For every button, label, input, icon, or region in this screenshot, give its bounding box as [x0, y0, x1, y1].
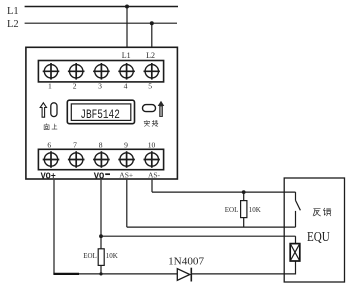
wire L2 drop to terminal 5 — [151, 23, 153, 48]
wire resistor to bottom — [100, 265, 102, 274]
junction dot VO- branch — [99, 234, 103, 238]
svg-text:6: 6 — [47, 141, 51, 150]
terminal 4 — [118, 63, 135, 80]
svg-text:5: 5 — [148, 82, 152, 91]
svg-text:L1: L1 — [7, 6, 19, 17]
diode D1 1N4007 triangle — [177, 269, 190, 281]
label shang (上) of 向上 — [52, 124, 57, 129]
label fan (反) of 反馈 — [313, 209, 320, 216]
wire VO- drop — [100, 180, 102, 249]
terminal 8 — [93, 151, 110, 168]
terminal 5 — [144, 63, 160, 80]
wire AS- run — [152, 191, 296, 193]
terminal 7 — [68, 151, 85, 168]
wire bottom to diode — [79, 273, 177, 275]
svg-text:2: 2 — [73, 82, 77, 91]
orientation icon: outline up-arrow — [40, 103, 46, 117]
switch feedback contact upper stub — [295, 192, 297, 200]
terminal 9 — [118, 151, 135, 168]
resistor EOL 10K (lower) — [98, 249, 104, 266]
orientation icon: zero capsule — [51, 103, 57, 117]
wire L1 bus — [25, 6, 178, 8]
svg-text:10K: 10K — [249, 206, 261, 214]
wire resistor EOL upper top stub — [243, 192, 245, 201]
svg-text:1N4007: 1N4007 — [168, 256, 204, 267]
svg-text:3: 3 — [98, 82, 102, 91]
display bezel inner — [71, 104, 131, 121]
svg-text:10: 10 — [148, 141, 156, 150]
switch feedback lower stub — [295, 211, 297, 227]
wire diode to load — [191, 261, 295, 274]
terminal 1 — [43, 63, 60, 80]
load X indicator box — [290, 244, 300, 261]
terminal 6 — [43, 151, 60, 168]
wire bottom bold segment — [53, 273, 79, 275]
label kui (馈) of 反馈 — [324, 208, 331, 216]
install icon: filled up-arrow — [158, 101, 165, 117]
svg-text:4: 4 — [124, 82, 128, 91]
svg-text:L2: L2 — [7, 19, 19, 30]
svg-text:8: 8 — [99, 141, 103, 150]
switch feedback blade — [296, 200, 301, 210]
junction dot bottom wire — [99, 272, 102, 275]
wire VO- feedback run — [101, 235, 296, 237]
svg-text:10K: 10K — [106, 252, 118, 260]
svg-text:AS+: AS+ — [119, 171, 133, 180]
junction dot AS- resistor — [242, 190, 246, 194]
svg-text:9: 9 — [124, 141, 128, 150]
svg-text:EOL: EOL — [225, 206, 239, 214]
svg-text:VO+: VO+ — [41, 170, 56, 181]
junction dot L2 — [150, 21, 154, 25]
svg-text:AS-: AS- — [148, 171, 161, 180]
terminal 2 — [68, 63, 85, 80]
wire VO+ drop — [53, 180, 55, 274]
install icon: capsule — [143, 105, 156, 112]
svg-text:EQU: EQU — [307, 230, 330, 245]
junction dot L1 — [125, 5, 129, 9]
wire L1 drop to terminal 4 — [126, 7, 128, 49]
wire load top stub — [295, 236, 297, 243]
svg-text:L2: L2 — [146, 51, 155, 60]
label an (安) of 安装 — [144, 120, 150, 126]
terminal strip bottom (6-10) — [38, 149, 163, 169]
terminal strip top (1-5) — [38, 61, 163, 82]
wire AS- drop — [151, 180, 153, 192]
svg-text:L1: L1 — [122, 51, 131, 60]
terminal 10 — [144, 151, 160, 168]
wire AS+ drop — [126, 180, 128, 227]
label xiang (向) of 向上 — [44, 124, 49, 130]
svg-text:JBF5142: JBF5142 — [80, 108, 120, 122]
svg-text:1: 1 — [48, 82, 52, 91]
svg-text:EOL: EOL — [83, 252, 97, 260]
wire resistor EOL upper bottom stub — [243, 218, 245, 228]
resistor EOL 10K (upper) — [241, 201, 247, 218]
terminal 3 — [93, 63, 110, 80]
svg-text:7: 7 — [73, 141, 77, 150]
wire AS+ run — [127, 226, 296, 228]
label zhuang (装) of 安装 — [152, 120, 158, 126]
svg-text:VO: VO — [94, 170, 105, 181]
wire L2 bus — [25, 22, 177, 24]
diode D1 cathode bar — [190, 268, 192, 282]
display bezel outer — [67, 100, 134, 124]
module U1 JBF5142 outline — [26, 47, 178, 179]
equipment box EQU — [284, 178, 344, 282]
